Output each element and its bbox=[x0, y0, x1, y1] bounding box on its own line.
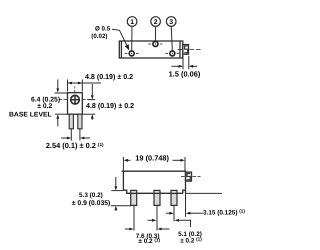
trimmer body outline (front view) bbox=[122, 171, 186, 193]
leg left (end view) bbox=[69, 114, 82, 129]
leg center extension lines bbox=[134, 193, 186, 230]
adjustment screw shaft (top view) bbox=[183, 45, 189, 55]
svg-text:1.5 (0.06): 1.5 (0.06) bbox=[169, 69, 201, 78]
dimension 2.54 pin spacing (end view bottom) bbox=[61, 129, 90, 141]
adjustment screw shaft (front view) bbox=[186, 172, 192, 181]
dimension 4.8 (end view right) bbox=[82, 84, 95, 120]
dimension 5.1 pin 2-3 spacing bbox=[148, 220, 191, 227]
screw centerline dashes (front view) bbox=[181, 176, 201, 178]
dimension 5.3 pin length (front view left) bbox=[111, 177, 131, 211]
pin 1 (top view) bbox=[125, 50, 139, 57]
svg-text:2: 2 bbox=[154, 19, 158, 26]
bottom right step bbox=[183, 190, 186, 193]
left end cap line bbox=[120, 41, 122, 58]
svg-text:(0.02): (0.02) bbox=[91, 33, 107, 40]
svg-text:3.15 (0.125) (1): 3.15 (0.125) (1) bbox=[203, 209, 245, 217]
svg-text:± 0.2: ± 0.2 bbox=[37, 103, 52, 110]
screw centerline dashes (end view) bbox=[60, 87, 90, 100]
base line extension right bbox=[186, 192, 222, 194]
pin number callout 1 bbox=[127, 17, 137, 51]
svg-text:5.3 (0.2): 5.3 (0.2) bbox=[79, 192, 103, 199]
svg-text:4.8 (0.19) ± 0.2: 4.8 (0.19) ± 0.2 bbox=[86, 102, 134, 110]
screw axis centerline dashes bbox=[178, 48, 183, 50]
pin 3 (top view) bbox=[165, 50, 179, 57]
svg-text:1: 1 bbox=[130, 19, 134, 26]
svg-text:3: 3 bbox=[169, 19, 173, 26]
svg-text:BASE LEVEL: BASE LEVEL bbox=[9, 112, 52, 119]
svg-text:Ø 0.5: Ø 0.5 bbox=[95, 25, 111, 32]
svg-text:2.54 (0.1) ± 0.2 (1): 2.54 (0.1) ± 0.2 (1) bbox=[46, 141, 104, 150]
svg-text:4.8 (0.19) ± 0.2: 4.8 (0.19) ± 0.2 bbox=[85, 73, 133, 81]
dimension 6.4 height (end view left) bbox=[55, 80, 68, 127]
trimmer body outline (top view) bbox=[119, 41, 183, 58]
right end cap line bbox=[179, 41, 181, 58]
pin number callout 2 bbox=[151, 17, 161, 41]
dimension 19 body length (front view top) bbox=[123, 157, 185, 171]
svg-text:± 0.9 (0.035): ± 0.9 (0.035) bbox=[72, 200, 111, 207]
svg-text:19 (0.748): 19 (0.748) bbox=[135, 153, 169, 162]
dimension 1.5 (0.06) shaft protrusion bbox=[171, 56, 197, 70]
dimension 7.6 pin 1-2 spacing bbox=[125, 228, 170, 230]
dimension 3.15 (front view right) bbox=[166, 212, 170, 214]
leg 3 (front view) bbox=[171, 190, 177, 205]
base bottom line over legs bbox=[127, 192, 183, 194]
adjustment screw (end view) bbox=[71, 95, 80, 104]
leg right (end view) bbox=[78, 114, 82, 129]
pin number callout 3 bbox=[166, 17, 176, 51]
leg 1 (front view) bbox=[131, 190, 177, 205]
leg 2 (front view) bbox=[154, 190, 160, 205]
pin 2 (top view) bbox=[148, 41, 162, 48]
bottom left step bbox=[123, 190, 182, 193]
leader from diameter label to pin 1 bbox=[112, 29, 127, 45]
dimension 4.8 width (end view top) bbox=[68, 80, 102, 92]
trimmer body outline (end view) bbox=[68, 93, 83, 115]
